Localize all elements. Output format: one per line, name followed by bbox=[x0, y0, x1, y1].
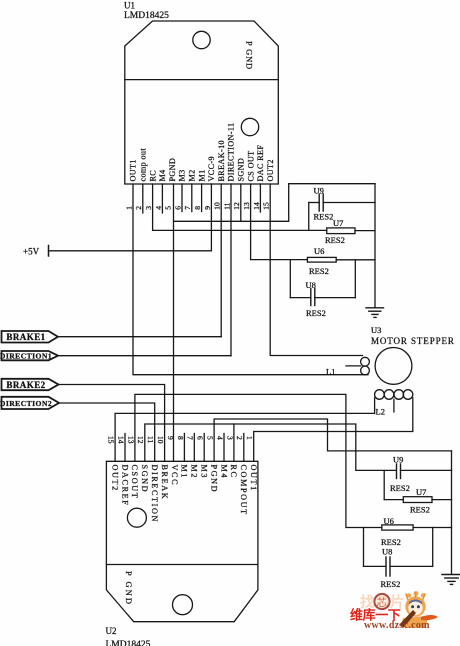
wire U2 M3 stub bbox=[203, 434, 205, 462]
wire U2 M1 stub bbox=[183, 434, 185, 462]
svg-text:DIRECTION: DIRECTION bbox=[150, 465, 159, 524]
svg-text:OUT1: OUT1 bbox=[129, 159, 138, 181]
wire U7 right lead to ground rail bbox=[355, 230, 375, 232]
svg-text:3: 3 bbox=[144, 206, 153, 210]
svg-text:SGND: SGND bbox=[237, 158, 246, 182]
svg-text:M1: M1 bbox=[197, 169, 206, 181]
svg-text:+5V: +5V bbox=[23, 247, 40, 257]
svg-text:DIRECTION2: DIRECTION2 bbox=[0, 399, 52, 408]
resistor U6 (lower) body bbox=[382, 525, 413, 530]
wire U2 M4 stub bbox=[223, 434, 225, 462]
motor stepper body circle bbox=[375, 348, 412, 385]
wire U1 pin1 OUT1 down and right to motor L1 lower terminal bbox=[133, 184, 368, 375]
wire U9 right lead to ground rail bbox=[323, 202, 375, 204]
svg-text:RES2: RES2 bbox=[306, 308, 326, 318]
svg-text:11: 11 bbox=[146, 436, 155, 443]
svg-text:RES2: RES2 bbox=[309, 266, 329, 276]
svg-text:L1: L1 bbox=[326, 367, 335, 377]
wire U9 left lead bbox=[309, 202, 319, 204]
svg-text:M3: M3 bbox=[200, 465, 209, 480]
wire lower ground rail vertical bbox=[451, 451, 453, 574]
svg-text:15: 15 bbox=[107, 436, 116, 444]
wire DIRECTION2 right then down to U2 DIRECTION pin bbox=[59, 403, 155, 461]
wire U9/U7 lower shared left vertical bbox=[383, 470, 385, 499]
svg-text:RC: RC bbox=[148, 170, 157, 182]
wire U1 pin9 VCC down to +5V rail bbox=[210, 184, 212, 251]
svg-text:OUT1: OUT1 bbox=[249, 465, 258, 492]
svg-text:BRAKE2: BRAKE2 bbox=[6, 380, 45, 390]
wire U1 pin14 DAC REF stub bbox=[259, 184, 261, 212]
wire BRAKE1 to U1 pin10 bbox=[58, 336, 221, 338]
svg-text:7: 7 bbox=[183, 206, 192, 210]
power port +5V bar bbox=[48, 246, 50, 257]
U2 body hole circle bbox=[127, 508, 146, 527]
wire U8 right vertical to U6 lead bbox=[354, 260, 356, 298]
svg-text:8: 8 bbox=[176, 436, 185, 440]
svg-text:14: 14 bbox=[116, 436, 125, 444]
U1 pin numbers 1-15 bbox=[124, 202, 270, 210]
svg-text:4: 4 bbox=[154, 206, 163, 210]
wire U2 SGND up and right to lower resistor U9 bbox=[145, 424, 396, 470]
ground bottom-right bbox=[442, 575, 460, 585]
svg-text:M2: M2 bbox=[188, 169, 197, 181]
svg-text:DAC REF: DAC REF bbox=[256, 145, 265, 182]
svg-text:11: 11 bbox=[222, 202, 231, 209]
U1 pin name labels bbox=[129, 123, 275, 182]
svg-text:RES2: RES2 bbox=[390, 483, 410, 493]
inductor L1 winding circles bbox=[361, 357, 370, 375]
wire U1 pin7 M2 stub bbox=[191, 184, 193, 212]
port BRAKE1 bbox=[2, 331, 58, 343]
svg-text:OUT2: OUT2 bbox=[266, 159, 275, 181]
svg-text:U2: U2 bbox=[106, 626, 117, 636]
svg-text:9: 9 bbox=[166, 436, 175, 440]
svg-text:M4: M4 bbox=[158, 169, 167, 181]
wire U8 lower left lead bbox=[364, 565, 387, 567]
resistor U9 (lower) body (plate style) bbox=[397, 464, 401, 479]
wire U2 RC tee up to SGND run bbox=[233, 424, 235, 461]
svg-text:U3: U3 bbox=[371, 325, 381, 335]
ground top-right bbox=[366, 308, 384, 318]
wire U6 right lead to ground rail bbox=[336, 259, 375, 261]
wire U2 M2 stub bbox=[193, 434, 195, 462]
svg-text:U7: U7 bbox=[416, 487, 426, 497]
svg-text:VCC-9: VCC-9 bbox=[207, 156, 216, 181]
wire U2 COMPOUT stub bbox=[243, 434, 245, 462]
wire U1 pin12 SGND to ground rail wire bbox=[240, 184, 242, 221]
svg-text:6: 6 bbox=[173, 206, 182, 210]
svg-text:M2: M2 bbox=[190, 465, 199, 480]
svg-text:9: 9 bbox=[203, 206, 212, 210]
wire +5V rail to U1 pin9 bbox=[49, 250, 212, 252]
svg-text:RES2: RES2 bbox=[381, 579, 401, 589]
wire U1 pin8 M1 stub bbox=[201, 184, 203, 212]
resistor U9 body (plate style) bbox=[319, 194, 323, 211]
resistor U7 body bbox=[327, 228, 355, 234]
svg-text:3: 3 bbox=[225, 436, 234, 440]
wire L1 center tap stub bbox=[346, 365, 361, 367]
U2 pin name labels bbox=[110, 465, 258, 524]
svg-text:13: 13 bbox=[126, 436, 135, 444]
op-amp U1 driver chip LMD18425 outline bbox=[125, 21, 278, 184]
wire U1 pin4 M4 stub bbox=[161, 184, 163, 213]
svg-text:U8: U8 bbox=[382, 547, 392, 557]
svg-text:RES2: RES2 bbox=[381, 537, 401, 547]
svg-text:14: 14 bbox=[252, 202, 261, 210]
svg-text:U1: U1 bbox=[124, 1, 135, 11]
svg-text:SGND: SGND bbox=[140, 465, 149, 494]
svg-text:DACREF: DACREF bbox=[120, 465, 129, 507]
wire U7 lower left lead bbox=[384, 499, 403, 501]
op-amp U2 driver chip LMD18425 outline bbox=[106, 461, 258, 621]
svg-text:M3: M3 bbox=[178, 169, 187, 181]
svg-text:PGND: PGND bbox=[209, 465, 218, 494]
svg-text:COMPOUT: COMPOUT bbox=[239, 465, 248, 516]
wire U1 pin13 CS OUT down then right to resistor U6 bbox=[251, 184, 308, 260]
svg-text:RES2: RES2 bbox=[325, 235, 345, 245]
wire U6/U8 left loop vertical bbox=[289, 260, 291, 298]
U2 pin numbers 15-1 bbox=[107, 436, 255, 444]
svg-text:PGND: PGND bbox=[168, 158, 177, 182]
svg-text:P GND: P GND bbox=[124, 571, 134, 606]
wire U8 left lead bbox=[290, 297, 311, 299]
svg-text:CSOUT: CSOUT bbox=[130, 465, 139, 500]
svg-text:6: 6 bbox=[196, 436, 205, 440]
resistor U8 (lower) body (plate style) bbox=[386, 557, 390, 576]
svg-text:10: 10 bbox=[213, 202, 222, 210]
resistor U6 body bbox=[307, 257, 336, 262]
svg-text:RC: RC bbox=[229, 465, 238, 479]
wire DIRECTION1 to U1 pin11 bbox=[58, 355, 231, 357]
svg-text:M4: M4 bbox=[219, 465, 228, 480]
resistor U7 (lower) body bbox=[403, 497, 432, 503]
watermark dzsc logo bbox=[350, 591, 438, 631]
wire BRAKE2 right then down to U2 BREAK pin bbox=[59, 385, 165, 462]
svg-text:comp out: comp out bbox=[139, 148, 148, 182]
svg-text:U9: U9 bbox=[393, 455, 403, 465]
svg-text:DIRECTION1: DIRECTION1 bbox=[0, 352, 52, 361]
svg-text:12: 12 bbox=[136, 436, 145, 444]
port DIRECTION2 bbox=[2, 397, 60, 409]
svg-text:5: 5 bbox=[206, 436, 215, 440]
svg-text:CS OUT: CS OUT bbox=[246, 151, 255, 182]
svg-text:MOTOR STEPPER: MOTOR STEPPER bbox=[371, 336, 455, 346]
wire U1 pin2 comp out stub bbox=[142, 184, 144, 213]
svg-text:VCC: VCC bbox=[170, 465, 179, 487]
wire L2 left terminal down-left to U2 OUT2 bbox=[115, 398, 375, 462]
inductor L2 winding circles bbox=[375, 390, 413, 400]
svg-text:1: 1 bbox=[124, 206, 133, 210]
port DIRECTION1 bbox=[2, 351, 59, 360]
svg-text:P GND: P GND bbox=[245, 41, 255, 70]
wire U9/U7 shared left vertical bbox=[308, 203, 310, 231]
svg-text:www.dzsc.com: www.dzsc.com bbox=[364, 620, 430, 631]
wire U1 pin10 BREAK down to BRAKE1 bbox=[220, 184, 222, 337]
wire U1 pin5 PGND down (continues as U2 VCC riser) bbox=[173, 184, 175, 461]
wire U7 lower right lead bbox=[432, 499, 452, 501]
wire top ground rail vertical bbox=[374, 184, 376, 307]
wire L2 right terminal down-left to U2 OUT1 bbox=[254, 398, 413, 462]
svg-text:2: 2 bbox=[235, 436, 244, 440]
svg-text:LMD18425: LMD18425 bbox=[124, 11, 169, 21]
svg-text:U7: U7 bbox=[333, 218, 343, 228]
svg-text:M1: M1 bbox=[180, 465, 189, 480]
svg-text:U6: U6 bbox=[314, 246, 324, 256]
svg-text:DIRECTION-11: DIRECTION-11 bbox=[227, 123, 236, 182]
wire U1 pin15 OUT2 down and right to motor L1 upper terminal bbox=[270, 184, 362, 356]
wire U6/U8 lower left loop vertical bbox=[363, 528, 365, 567]
U2 mounting hole (tab circle) bbox=[173, 595, 193, 615]
svg-text:BREAK: BREAK bbox=[160, 465, 169, 501]
U1 mounting hole (tab circle) bbox=[193, 31, 210, 48]
wire U1 pin5 PGND to top ground rail bbox=[174, 184, 376, 222]
wire U2 PGND up right and down to lower rail bbox=[214, 419, 451, 461]
svg-text:L2: L2 bbox=[376, 407, 385, 417]
svg-text:15: 15 bbox=[262, 202, 271, 210]
svg-text:BREAK-10: BREAK-10 bbox=[217, 140, 226, 181]
wire L2 center tap stub bbox=[393, 399, 395, 412]
svg-text:8: 8 bbox=[193, 206, 202, 210]
svg-text:BRAKE1: BRAKE1 bbox=[6, 332, 45, 342]
svg-text:5: 5 bbox=[164, 206, 173, 210]
svg-text:7: 7 bbox=[186, 436, 195, 440]
svg-text:LMD18425: LMD18425 bbox=[106, 640, 151, 646]
wire U8 right lead bbox=[315, 297, 356, 299]
port BRAKE2 bbox=[2, 379, 59, 390]
svg-text:13: 13 bbox=[242, 202, 251, 210]
wire U1 pin6 M3 stub bbox=[181, 184, 183, 212]
svg-text:10: 10 bbox=[156, 436, 165, 444]
wire U8 lower right vertical to U6 lead bbox=[432, 528, 434, 567]
wire U2 CSOUT up right and down to lower resistor U6 bbox=[135, 394, 382, 527]
wire U9 lower right lead bbox=[401, 469, 452, 471]
U1 body hole circle bbox=[241, 118, 258, 135]
wire U1 pin11 DIRECTION down to DIRECTION1 bbox=[230, 184, 232, 356]
svg-text:RES2: RES2 bbox=[314, 212, 334, 222]
svg-text:4: 4 bbox=[215, 436, 224, 440]
wire U2 DACREF stub bbox=[124, 434, 126, 462]
svg-text:1: 1 bbox=[245, 436, 254, 440]
svg-text:12: 12 bbox=[232, 202, 241, 210]
wire U1 pin3 RC right to resistor U7 bbox=[153, 184, 327, 230]
wire U6 lower right lead bbox=[413, 527, 451, 529]
wire U8 lower right lead bbox=[390, 565, 433, 567]
svg-text:2: 2 bbox=[134, 206, 143, 210]
svg-text:OUT2: OUT2 bbox=[110, 465, 119, 492]
resistor U8 body (plate style) bbox=[311, 289, 315, 306]
svg-text:RES2: RES2 bbox=[410, 505, 430, 515]
